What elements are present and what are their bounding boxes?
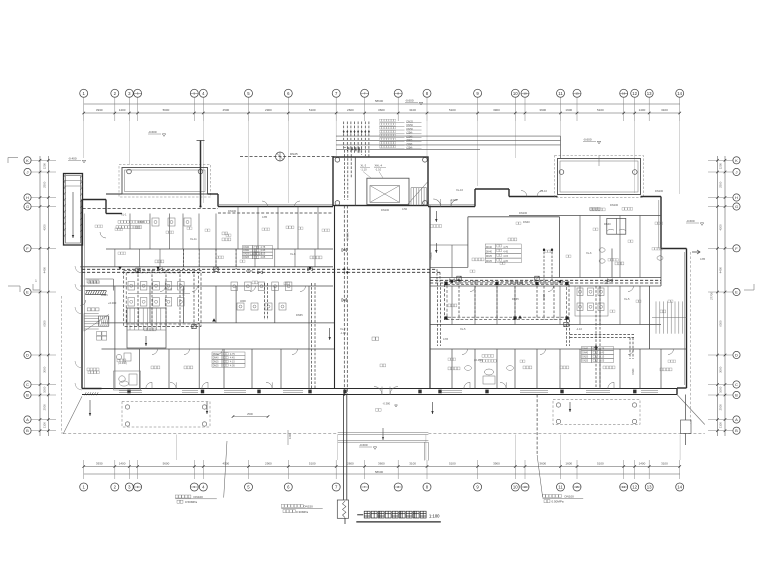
structural columns along south wall bbox=[127, 390, 130, 394]
svg-text:15: 15 bbox=[575, 92, 579, 96]
right unit upper rooms ceiling wall bbox=[509, 215, 661, 217]
svg-text:11: 11 bbox=[558, 485, 563, 490]
right wing east wall bbox=[686, 249, 688, 389]
svg-text:10: 10 bbox=[523, 92, 527, 96]
terrace southwest diagonal edge bbox=[63, 396, 82, 434]
left margin fold mark lower with figure 1 bbox=[8, 285, 20, 287]
right margin fold mark bbox=[744, 289, 754, 291]
north wall bay2 to east corner bbox=[641, 196, 662, 198]
svg-text:3600: 3600 bbox=[378, 461, 385, 465]
svg-text:2500: 2500 bbox=[43, 181, 47, 188]
left wing northwest wall bbox=[82, 199, 106, 201]
svg-text:4.85: 4.85 bbox=[262, 215, 268, 219]
lobby entry arrows right bbox=[435, 211, 437, 222]
svg-text:DN25: DN25 bbox=[290, 152, 298, 156]
porch doors on north wall bbox=[262, 201, 268, 207]
svg-text:0.50MPa: 0.50MPa bbox=[552, 500, 564, 504]
sanitary fixtures cluster left-A bbox=[128, 282, 135, 291]
svg-text:-1.10: -1.10 bbox=[375, 168, 382, 172]
svg-text:2500: 2500 bbox=[718, 181, 722, 188]
core elevator car with cross bbox=[370, 186, 400, 203]
branch down to south rooms left bbox=[311, 283, 313, 388]
svg-text:XL-5: XL-5 bbox=[460, 327, 466, 331]
svg-text:DN100: DN100 bbox=[610, 203, 619, 207]
svg-text:D: D bbox=[26, 353, 29, 358]
annotation right leader bbox=[537, 455, 543, 497]
north wall jog at x475 bbox=[474, 189, 476, 207]
core corner columns bbox=[335, 158, 340, 163]
svg-text:10: 10 bbox=[523, 485, 527, 489]
right wing partition bbox=[611, 249, 613, 278]
lobby entrance double door bbox=[374, 387, 382, 395]
svg-text:5100: 5100 bbox=[309, 108, 316, 112]
core leader lines bbox=[363, 172, 371, 179]
svg-text:-0.020: -0.020 bbox=[450, 198, 458, 202]
svg-text:XHL-4: XHL-4 bbox=[375, 164, 383, 168]
fixtures upper rooms left bbox=[152, 218, 159, 226]
vertical standpipe at grid 5 bbox=[200, 141, 202, 207]
svg-text:5600: 5600 bbox=[163, 108, 170, 112]
svg-text:1400: 1400 bbox=[639, 461, 646, 465]
svg-text:4500: 4500 bbox=[223, 461, 230, 465]
svg-text:4.75: 4.75 bbox=[600, 348, 605, 351]
overhead main pipes to right unit bbox=[336, 135, 561, 137]
southwest wall hatch patch bbox=[84, 392, 98, 395]
svg-text:3100: 3100 bbox=[661, 461, 668, 465]
north wall core to jog up bbox=[428, 206, 475, 208]
entrance walk centre tick bbox=[382, 428, 384, 440]
north wall segment bay1 to jog bbox=[208, 193, 219, 195]
west stair diagonal bbox=[84, 314, 109, 331]
core elevator shaft bbox=[367, 178, 409, 204]
svg-text:4.75: 4.75 bbox=[230, 353, 235, 356]
svg-text:1200: 1200 bbox=[43, 163, 47, 170]
bar pantry partitions bbox=[451, 245, 453, 278]
right loop drop pair to south corridor bbox=[566, 320, 568, 346]
svg-text:0.30MPa: 0.30MPa bbox=[296, 510, 308, 514]
svg-text:(50#): (50#) bbox=[407, 143, 413, 146]
right unit upper partitions bbox=[579, 216, 581, 278]
right wing stair treads bbox=[655, 301, 657, 333]
stair up arrows lobby bbox=[89, 400, 91, 416]
svg-text:1000: 1000 bbox=[718, 386, 722, 393]
hydrant arrow triangles bbox=[156, 267, 160, 270]
svg-text:4.05: 4.05 bbox=[230, 364, 235, 367]
left unit mid wall bbox=[102, 322, 335, 324]
meter box grid lower bbox=[97, 332, 102, 336]
right unit room front wall bbox=[430, 348, 687, 350]
entry label with arrow bbox=[376, 409, 379, 412]
north wall segment to core bbox=[218, 206, 333, 208]
left unit vertical partitions corridor band bbox=[114, 249, 116, 267]
svg-text:4.50: 4.50 bbox=[402, 207, 408, 211]
svg-text:12: 12 bbox=[632, 485, 637, 490]
svg-text:DN100: DN100 bbox=[381, 208, 390, 212]
note text block upper left room bbox=[118, 221, 120, 224]
doors along south wall arcs bbox=[146, 382, 152, 388]
left unit vertical partitions upper bbox=[129, 214, 131, 250]
external pipe drop right of lobby bbox=[536, 395, 538, 456]
bay 1 eave dashed outline bbox=[119, 165, 211, 198]
svg-text:-0.380: -0.380 bbox=[383, 402, 391, 406]
svg-text:DN50: DN50 bbox=[407, 124, 414, 127]
annotation right text block bbox=[543, 495, 546, 498]
svg-text:4.45: 4.45 bbox=[230, 357, 235, 360]
svg-text:12: 12 bbox=[632, 91, 637, 96]
ramp down arrow bbox=[72, 192, 74, 238]
core stair flight diagonal bbox=[408, 182, 428, 205]
svg-text:1:100: 1:100 bbox=[429, 514, 440, 519]
svg-text:DN40: DN40 bbox=[604, 222, 611, 226]
svg-text:K: K bbox=[735, 158, 738, 163]
svg-text:11: 11 bbox=[558, 91, 563, 96]
terrace south edge dashed line bbox=[63, 433, 338, 435]
left unit vertical partitions lower band bbox=[114, 349, 116, 389]
branch risers left unit upper bbox=[182, 249, 184, 269]
right wing north wall bbox=[661, 248, 687, 250]
meter box row bbox=[87, 308, 91, 311]
windows in south wall bbox=[119, 390, 142, 392]
svg-text:DN100: DN100 bbox=[565, 495, 575, 499]
svg-text:XL-5: XL-5 bbox=[624, 297, 630, 301]
riser bundle vertical dashed pipes bbox=[343, 122, 345, 151]
solid junction dots bbox=[343, 268, 345, 270]
svg-text:-0.600: -0.600 bbox=[686, 219, 695, 223]
right service pipe with box bbox=[685, 395, 687, 421]
svg-text:DN25: DN25 bbox=[582, 361, 589, 363]
svg-text:3600: 3600 bbox=[378, 108, 385, 112]
branch to stalls left bbox=[264, 283, 266, 320]
loop corner valve squares bbox=[444, 282, 447, 285]
north bay 2 (right terrace) bbox=[558, 159, 641, 195]
right axis dimension line inner bbox=[724, 156, 726, 436]
svg-text:2500: 2500 bbox=[718, 404, 722, 411]
svg-text:3930: 3930 bbox=[96, 108, 103, 112]
bottom axis grid extension lines bbox=[83, 460, 85, 479]
svg-text:2600: 2600 bbox=[347, 108, 354, 112]
svg-text:4.05: 4.05 bbox=[503, 260, 508, 263]
svg-text:J: J bbox=[736, 170, 738, 175]
shower room label block right bbox=[482, 355, 485, 358]
wc room labels right bbox=[608, 259, 610, 262]
west hoist crosshatch block bbox=[99, 316, 109, 326]
svg-text:C: C bbox=[735, 382, 738, 387]
svg-text:2600: 2600 bbox=[347, 461, 354, 465]
svg-text:4.85: 4.85 bbox=[700, 257, 706, 261]
annotation left leader bbox=[224, 441, 227, 498]
svg-text:DN40: DN40 bbox=[486, 252, 493, 254]
svg-text:5100: 5100 bbox=[309, 461, 316, 465]
svg-text:4400: 4400 bbox=[718, 267, 722, 274]
svg-text:4.15: 4.15 bbox=[230, 361, 235, 364]
svg-text:58600: 58600 bbox=[375, 99, 384, 103]
svg-text:(50#): (50#) bbox=[407, 139, 413, 142]
pipe schedule table left unit bbox=[243, 246, 253, 249]
south wall inner line bbox=[102, 388, 678, 390]
svg-text:-1.10: -1.10 bbox=[576, 327, 582, 331]
svg-text:3100: 3100 bbox=[409, 108, 416, 112]
svg-text:3000: 3000 bbox=[43, 366, 47, 373]
lobby entry label bbox=[431, 225, 433, 228]
bottom axis dimension line lower bbox=[84, 473, 680, 475]
svg-text:DN65: DN65 bbox=[543, 293, 546, 300]
svg-text:5100: 5100 bbox=[449, 108, 456, 112]
riser bundle lower continuation pipes bbox=[344, 150, 346, 200]
west service stair treads bbox=[84, 312, 99, 314]
svg-text:5100: 5100 bbox=[597, 461, 604, 465]
right unit mid wall bbox=[430, 324, 661, 326]
svg-text:4.15: 4.15 bbox=[503, 255, 508, 258]
svg-text:E: E bbox=[735, 290, 738, 295]
svg-text:1400: 1400 bbox=[119, 461, 126, 465]
svg-text:(-0.430): (-0.430) bbox=[118, 362, 127, 365]
core south doors bbox=[433, 199, 441, 207]
left unit vertical partitions middle band bbox=[114, 286, 116, 323]
residential elevator shafts bbox=[607, 218, 626, 234]
left loop inner branch verticals bbox=[137, 270, 139, 326]
svg-text:4200: 4200 bbox=[718, 224, 722, 231]
lobby entry dashed pair from loop bbox=[437, 283, 439, 346]
core stair treads bbox=[410, 188, 412, 206]
valve symbols on mains bbox=[158, 268, 163, 271]
svg-text:4.75: 4.75 bbox=[503, 246, 508, 249]
site supply pipes below building bbox=[342, 395, 344, 501]
left margin fold mark upper bbox=[8, 157, 18, 159]
svg-text:(25#): (25#) bbox=[407, 135, 413, 138]
top axis dimension line upper bbox=[84, 103, 680, 105]
lobby west wall bbox=[334, 206, 336, 389]
svg-text:3900: 3900 bbox=[493, 108, 500, 112]
svg-text:DN65: DN65 bbox=[512, 297, 519, 301]
left axis dimension line outer bbox=[47, 156, 49, 436]
svg-text:4.65: 4.65 bbox=[443, 337, 449, 341]
svg-text:B: B bbox=[26, 393, 29, 398]
svg-text:DN25: DN25 bbox=[407, 120, 414, 123]
svg-text:A: A bbox=[26, 417, 29, 422]
left unit upper rooms ceiling wall bbox=[106, 248, 333, 250]
top axis grid bubbles row bbox=[80, 89, 88, 97]
svg-text:27700: 27700 bbox=[710, 292, 714, 300]
svg-text:0.50MPa: 0.50MPa bbox=[185, 500, 197, 504]
svg-text:H: H bbox=[26, 195, 29, 200]
svg-text:DN40: DN40 bbox=[632, 368, 635, 375]
svg-text:(-0.450): (-0.450) bbox=[474, 359, 483, 362]
right axis ticks and extensions bbox=[708, 159, 733, 161]
small wc room fixtures left bbox=[116, 354, 121, 359]
svg-text:XL-11: XL-11 bbox=[190, 237, 197, 241]
bottom axis grid bubbles row bbox=[80, 483, 88, 491]
svg-text:4.45: 4.45 bbox=[600, 352, 605, 355]
svg-text:14: 14 bbox=[677, 91, 682, 96]
svg-text:DN40: DN40 bbox=[243, 247, 250, 249]
north-west supply entry DN100 bbox=[83, 208, 219, 210]
core pipe shaft partition bbox=[354, 157, 356, 206]
svg-text:4.15: 4.15 bbox=[600, 356, 605, 359]
svg-text:1: 1 bbox=[35, 279, 37, 283]
lobby east wall bbox=[429, 206, 431, 389]
svg-text:DN100: DN100 bbox=[519, 211, 528, 215]
svg-text:1100: 1100 bbox=[43, 422, 47, 428]
branch risers right wing bbox=[595, 286, 597, 388]
fire main dashed left unit loop bbox=[124, 270, 201, 326]
svg-text:3600: 3600 bbox=[539, 108, 546, 112]
svg-text:B: B bbox=[735, 393, 738, 398]
right unit corridor north wall bbox=[430, 277, 661, 279]
west wall hatch patch bbox=[85, 291, 106, 295]
svg-text:DN100: DN100 bbox=[347, 232, 350, 240]
svg-text:10: 10 bbox=[513, 485, 518, 490]
svg-text:XL-2: XL-2 bbox=[166, 287, 172, 291]
svg-text:DN150: DN150 bbox=[304, 505, 314, 509]
right wing west wall bbox=[649, 286, 651, 349]
upper band room label speckles bbox=[115, 228, 117, 231]
left unit corridor north wall bbox=[80, 266, 333, 268]
svg-text:XL-6: XL-6 bbox=[290, 252, 296, 256]
right unit lower partitions bbox=[451, 349, 453, 389]
svg-text:19: 19 bbox=[622, 92, 626, 96]
riser legend list top centre bbox=[380, 119, 382, 121]
svg-text:H: H bbox=[735, 195, 738, 200]
pipe schedule table lounge bbox=[485, 244, 495, 249]
svg-text:6300: 6300 bbox=[718, 320, 722, 327]
stair core box outline bbox=[333, 157, 428, 206]
left unit stair arrow bbox=[145, 336, 147, 346]
svg-text:DN100: DN100 bbox=[183, 288, 186, 296]
svg-text:5600: 5600 bbox=[163, 461, 170, 465]
lounge room label bbox=[508, 238, 511, 241]
right axis dimension line outer bbox=[717, 156, 719, 436]
supply continues below pit bbox=[344, 518, 346, 524]
svg-text:3000: 3000 bbox=[718, 366, 722, 373]
fire main dashed right unit loop bbox=[445, 282, 570, 320]
svg-text:+0.000: +0.000 bbox=[108, 301, 117, 305]
svg-text:E: E bbox=[26, 290, 29, 295]
right loop inner branch verticals bbox=[458, 282, 460, 320]
wc ovals right unit bbox=[599, 248, 605, 252]
svg-text:15: 15 bbox=[575, 485, 579, 489]
svg-text:(25#): (25#) bbox=[407, 132, 413, 135]
north wall to bay 2 bbox=[509, 196, 558, 198]
south wall outer line bbox=[82, 394, 677, 396]
corridor dashes along core south bbox=[218, 212, 333, 214]
svg-text:B: B bbox=[26, 428, 29, 433]
title underline bbox=[356, 521, 441, 523]
right eave dashed boundary bbox=[690, 252, 692, 424]
svg-text:3930: 3930 bbox=[96, 461, 103, 465]
DN25 branch line to west bbox=[240, 156, 336, 158]
left unit corridor south wall bbox=[80, 285, 333, 287]
svg-text:DN25: DN25 bbox=[243, 257, 250, 259]
svg-text:4500: 4500 bbox=[223, 108, 230, 112]
right wing southeast corner bbox=[677, 387, 687, 389]
svg-text:XL-4: XL-4 bbox=[472, 279, 478, 283]
svg-text:2500: 2500 bbox=[247, 412, 253, 416]
svg-text:4.05: 4.05 bbox=[261, 256, 266, 259]
annotation centre text block bbox=[281, 504, 284, 507]
svg-text:XL-2: XL-2 bbox=[340, 327, 346, 331]
svg-text:3100: 3100 bbox=[661, 108, 668, 112]
fire main corridor run left bbox=[82, 268, 437, 270]
top axis dimension line lower bbox=[84, 112, 680, 114]
lobby twin supply pipes down bbox=[343, 206, 345, 395]
svg-text:DN25: DN25 bbox=[213, 365, 220, 367]
svg-text:(25#): (25#) bbox=[407, 147, 413, 150]
pipe schedule table right unit bbox=[582, 347, 592, 351]
svg-text:4.45: 4.45 bbox=[503, 251, 508, 254]
left unit lower mid partitions bbox=[114, 323, 116, 349]
terrace left dashed boundary bbox=[61, 296, 63, 432]
sanitary fixtures cluster left-B bbox=[231, 282, 238, 291]
svg-text:5100: 5100 bbox=[449, 461, 456, 465]
left axis dimension line inner bbox=[39, 156, 41, 436]
drawing title glyphs bbox=[357, 514, 363, 516]
svg-text:2900: 2900 bbox=[265, 108, 272, 112]
right wing entry arrow bbox=[692, 250, 700, 254]
ramp enclosure left bbox=[64, 174, 83, 246]
left unit room front wall bbox=[102, 348, 335, 350]
terrace planting bed right dashed bbox=[553, 400, 640, 425]
hydrant riser symbols bbox=[136, 268, 140, 272]
svg-text:C: C bbox=[26, 382, 29, 387]
bay 2 corner column left bbox=[559, 170, 564, 175]
svg-text:4.05: 4.05 bbox=[600, 360, 605, 363]
svg-text:G: G bbox=[26, 204, 29, 209]
svg-text:10: 10 bbox=[513, 91, 518, 96]
west wall of left wing bbox=[81, 200, 83, 389]
left axis ticks and extensions bbox=[31, 159, 56, 161]
svg-text:DN100: DN100 bbox=[430, 252, 433, 260]
svg-text:DN50: DN50 bbox=[407, 128, 414, 131]
core stair handrail bbox=[411, 187, 427, 189]
svg-text:XL-6: XL-6 bbox=[586, 251, 592, 255]
svg-text:13: 13 bbox=[647, 485, 652, 490]
svg-text:2900: 2900 bbox=[265, 461, 272, 465]
fire main corridor run right bbox=[430, 279, 661, 281]
svg-text:3200: 3200 bbox=[240, 299, 246, 303]
svg-text:XL-10: XL-10 bbox=[540, 189, 547, 193]
washroom fixtures bottom-left bbox=[114, 371, 141, 390]
svg-text:-1.10: -1.10 bbox=[361, 168, 368, 172]
VP elevator labels bbox=[590, 208, 592, 211]
bay 1 corner column right bbox=[198, 169, 203, 174]
dimension 2500 on terrace bbox=[233, 416, 268, 418]
riser bundle elbows to legend bbox=[344, 147, 362, 149]
svg-text:1000: 1000 bbox=[43, 386, 47, 393]
north wall doors near bay2 bbox=[521, 191, 527, 197]
svg-text:4200: 4200 bbox=[43, 224, 47, 231]
corridor doors left unit bbox=[160, 286, 166, 292]
svg-text:DN25: DN25 bbox=[486, 261, 493, 263]
riser bundle arrows bbox=[343, 131, 345, 134]
svg-text:-0.600: -0.600 bbox=[405, 99, 414, 103]
sanitary fixtures cluster right-C bbox=[577, 288, 583, 296]
svg-text:XL-1: XL-1 bbox=[121, 213, 127, 217]
left axis grid bubbles column bbox=[24, 157, 31, 164]
svg-text:1200: 1200 bbox=[288, 433, 292, 439]
svg-text:XL-3: XL-3 bbox=[361, 164, 367, 168]
svg-text:1600: 1600 bbox=[565, 108, 572, 112]
drop to spec table right bbox=[629, 338, 631, 360]
bottom axis dimension ticks bbox=[82, 465, 85, 468]
top axis dimension ticks bbox=[82, 112, 85, 115]
room front wall doors left unit bbox=[152, 349, 158, 355]
svg-text:13: 13 bbox=[647, 91, 652, 96]
water meter pit box bbox=[337, 500, 348, 518]
right unit corridor south wall bbox=[430, 285, 661, 287]
top axis grid extension lines bbox=[83, 97, 85, 121]
lobby entrance steps bbox=[338, 432, 429, 434]
annotation left text block bbox=[175, 495, 178, 498]
